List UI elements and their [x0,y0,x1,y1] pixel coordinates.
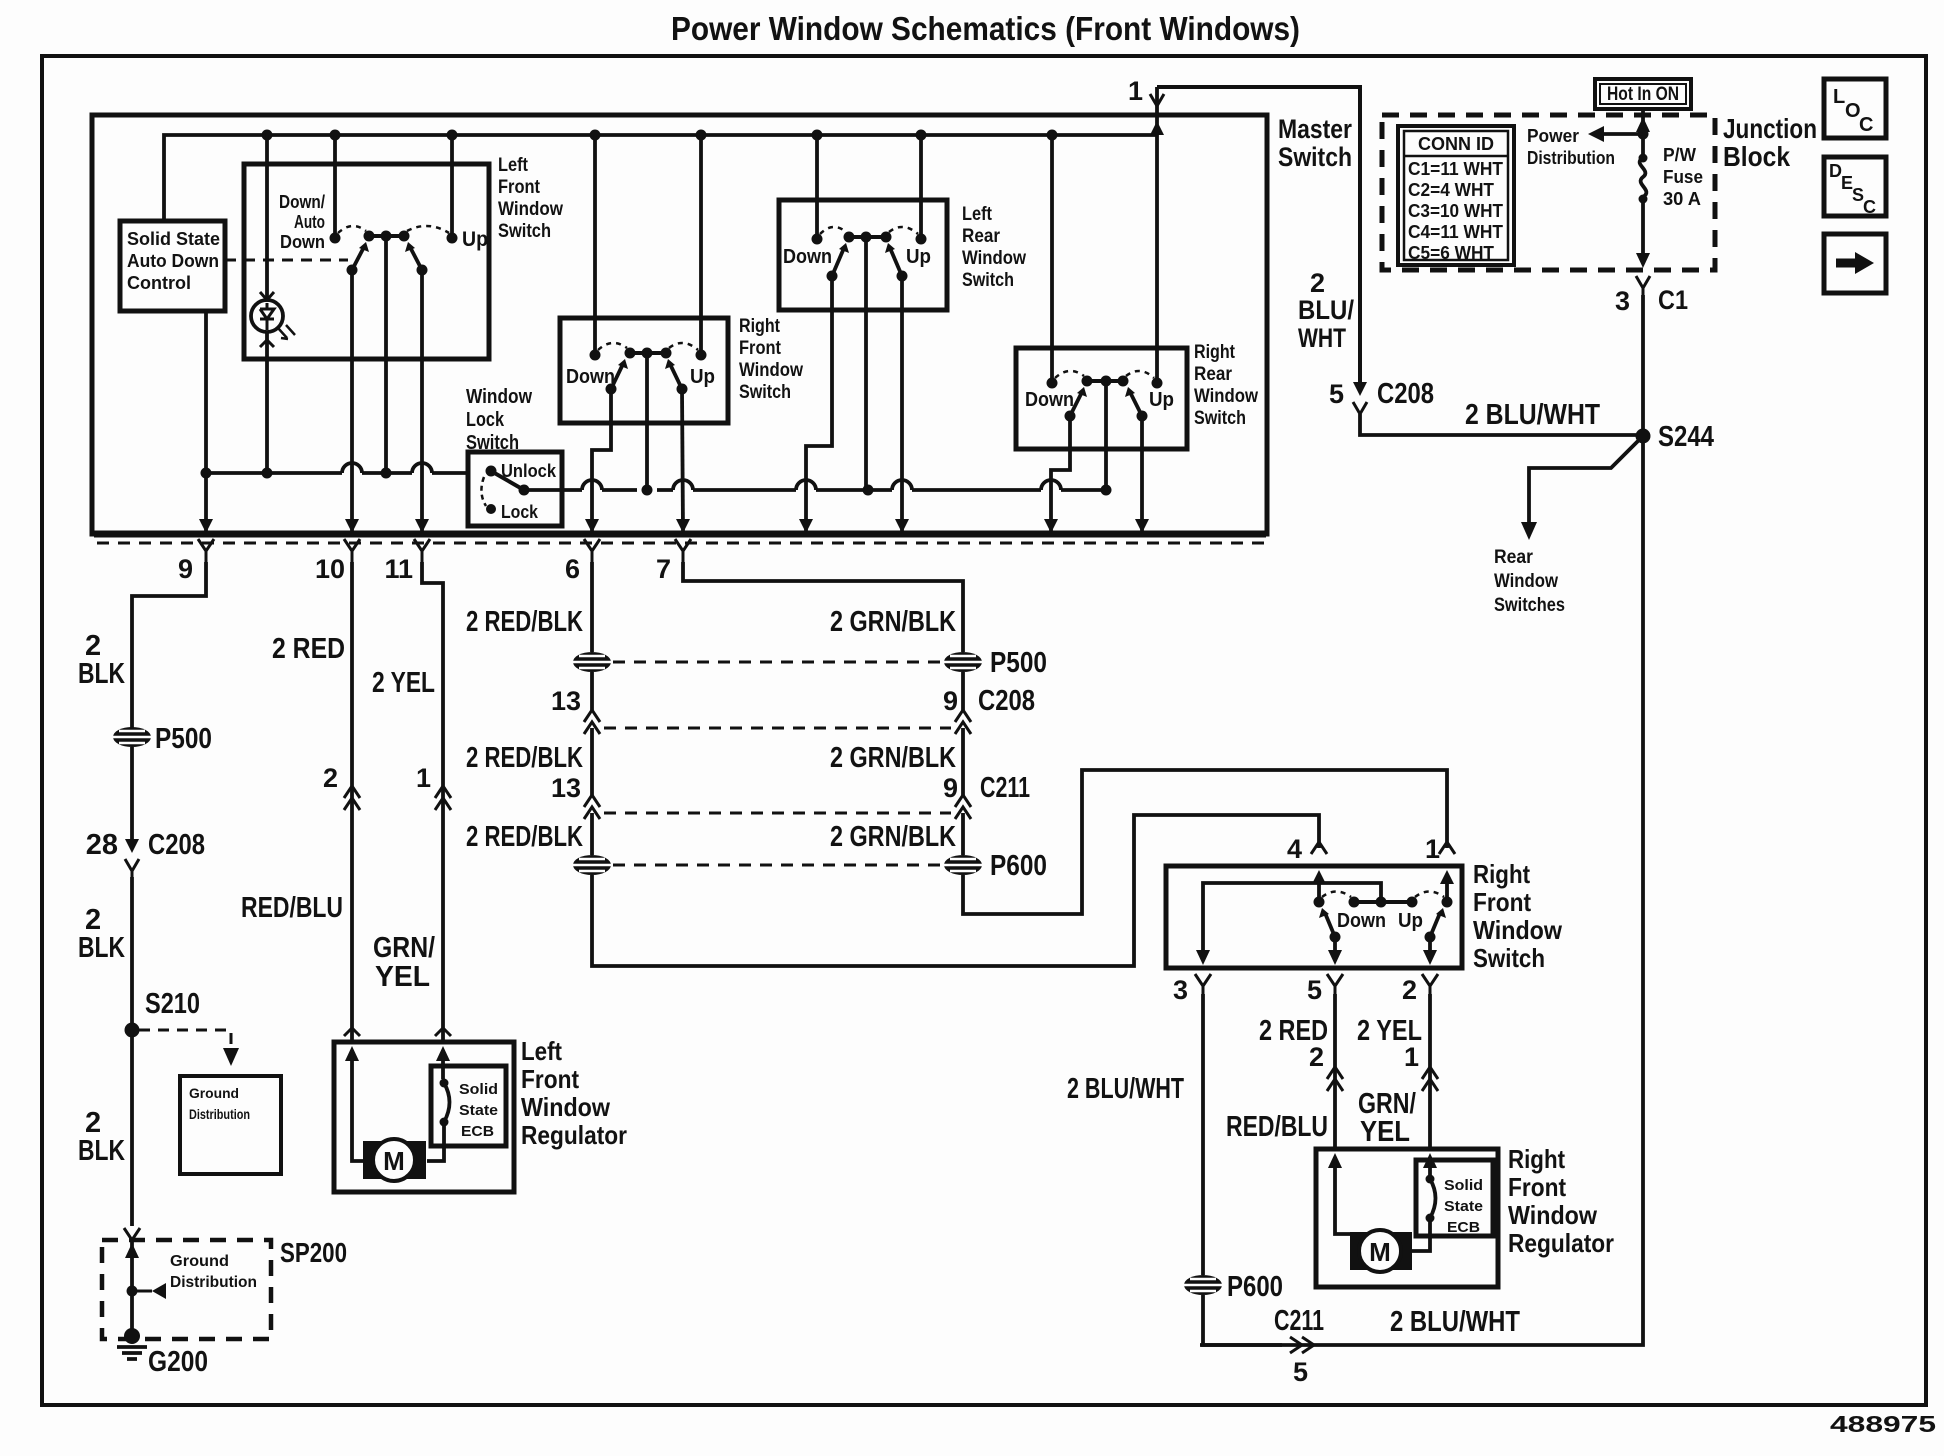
svg-text:C2=4 WHT: C2=4 WHT [1408,180,1494,200]
svg-text:C208: C208 [148,829,205,861]
svg-text:P600: P600 [1227,1271,1283,1303]
wire lock switch output bus [524,488,1106,492]
right front window regulator box [1316,1149,1498,1287]
wire SP200 internal [130,1240,134,1336]
svg-text:S210: S210 [145,988,200,1020]
connector P500 pair right [944,652,982,672]
svg-text:Switch: Switch [1473,943,1545,973]
connector pin 1 chevrons right regulator [1422,1067,1438,1091]
svg-text:Front: Front [1508,1172,1566,1202]
svg-text:2 BLU/WHT: 2 BLU/WHT [1465,399,1600,431]
wire feeds RR switch [1052,135,1157,383]
svg-text:Up: Up [1398,910,1423,932]
switch contacts RR window switch [1047,376,1163,422]
svg-text:Solid: Solid [459,1081,498,1098]
wire pin 7 chain [683,562,963,652]
connector RFWS pin 5 bottom [1327,974,1343,994]
svg-text:Front: Front [1473,887,1531,917]
switch contacts LR window switch [812,232,927,282]
master switch connector dashed line [97,542,1266,545]
wire P500 to C208 [130,747,134,839]
wire internal supply bus [164,135,1157,221]
svg-text:11: 11 [384,554,413,584]
right front window switch box [1166,866,1462,968]
connector RFWS pin 3 bottom [1195,974,1211,994]
svg-text:Master: Master [1278,114,1352,144]
svg-text:State: State [459,1102,498,1119]
svg-text:P500: P500 [155,723,212,755]
svg-text:3: 3 [1615,286,1630,316]
svg-text:Down: Down [566,366,615,388]
svg-text:BLU/: BLU/ [1298,295,1354,325]
dashed link C208 [604,727,951,730]
svg-text:C208: C208 [978,685,1035,717]
svg-text:Front: Front [498,177,541,198]
svg-text:Distribution: Distribution [1527,148,1615,168]
svg-text:L: L [1833,86,1845,108]
junction block dashed box [1382,115,1715,270]
svg-text:Rear: Rear [962,226,1001,247]
svg-text:488975: 488975 [1830,1411,1936,1437]
svg-text:Fuse: Fuse [1663,167,1703,187]
svg-text:2 RED/BLK: 2 RED/BLK [466,821,583,853]
connector C1 pin 3 [1636,276,1650,295]
svg-text:Right: Right [1473,859,1530,889]
svg-text:G200: G200 [148,1346,208,1378]
svg-text:2 RED: 2 RED [272,633,345,665]
CONN ID table [1398,126,1514,265]
svg-text:Solid: Solid [1444,1177,1483,1194]
svg-text:Up: Up [690,366,715,388]
wire ECB to motor right regulator [1412,1157,1430,1251]
fuse PW 30A [1639,154,1648,163]
svg-text:Down: Down [1337,910,1386,932]
svg-text:C: C [1859,114,1873,136]
svg-text:1: 1 [1128,76,1143,106]
wire pin 9 to P500 [132,562,206,728]
connector C208 pin 28 [125,839,139,853]
connector C211 pin 13 [584,795,600,819]
wire feed LF down contact [333,135,337,238]
wire RF center output [645,353,649,490]
svg-text:Up: Up [1149,389,1174,411]
svg-text:Right: Right [739,316,781,337]
svg-text:YEL: YEL [1360,1116,1410,1148]
wire pin 9 drop [204,473,208,531]
LOC legend box [1824,79,1886,138]
wire pin 5 down [1333,994,1337,1151]
ground distribution box [180,1076,281,1174]
LED indicator lamp [251,300,283,332]
svg-text:State: State [1444,1198,1483,1215]
solid state auto down control [120,221,225,311]
connector P500 grommet [113,727,151,747]
svg-text:2: 2 [1310,268,1325,298]
right front window switch box master [560,318,728,423]
pin 11 connector [414,539,430,562]
svg-text:SP200: SP200 [280,1237,347,1268]
svg-text:Left: Left [498,155,529,176]
connector C211 pin 9 [955,795,971,819]
svg-text:Block: Block [1723,141,1790,172]
svg-text:M: M [1369,1237,1391,1267]
svg-text:ECB: ECB [461,1123,494,1140]
connector C211 pin 5 bottom [1290,1337,1314,1353]
wire pin 3 to P600 [1201,994,1205,1275]
wire P500 to C208 left [590,672,594,795]
svg-text:Window: Window [498,199,563,220]
wire pin 11 to regulator [422,562,443,1042]
solid state ECB right [1416,1160,1493,1236]
wire LR center output [864,237,868,490]
svg-text:2: 2 [323,763,338,793]
connector pin 2 chevrons right regulator [1327,1067,1343,1091]
svg-text:Front: Front [739,338,782,359]
bus junction dots [262,130,1058,141]
svg-text:CONN ID: CONN ID [1418,134,1494,154]
wire S244 branch to rear window switches [1529,441,1638,522]
svg-text:Switches: Switches [1494,595,1565,616]
svg-text:P/W: P/W [1663,145,1696,165]
wire RFWS pin feeds [1319,884,1447,902]
wire left lead to RFWS pin 4 [592,815,1319,966]
svg-text:Distribution: Distribution [189,1106,250,1122]
regulator pin arrows right [1328,1153,1342,1168]
wire pin 10 to regulator [350,562,354,1042]
svg-text:S244: S244 [1658,421,1714,453]
svg-text:C4=11 WHT: C4=11 WHT [1408,222,1503,242]
window lock switch [468,452,562,526]
svg-text:Window: Window [1494,571,1558,592]
connector P600 pair left [573,855,611,875]
svg-text:2 BLU/WHT: 2 BLU/WHT [1067,1073,1184,1105]
wire C208 to S244 [1360,414,1636,435]
arrow legend box [1824,234,1886,293]
wire motor left lead [352,1050,364,1161]
svg-text:Left: Left [962,204,993,225]
svg-text:Ground: Ground [189,1085,239,1101]
svg-text:Switch: Switch [1194,408,1246,429]
connector pin 1 chevrons [435,786,451,810]
dashed link P600 [613,864,942,867]
svg-text:1: 1 [1404,1042,1419,1072]
svg-text:C5=6 WHT: C5=6 WHT [1408,243,1494,263]
svg-text:Rear: Rear [1494,547,1534,568]
dashed link C211 [604,812,951,815]
wire RFWS down output pin 5 [1333,937,1337,950]
wire RR down output [1051,416,1070,531]
svg-text:13: 13 [551,686,581,716]
switch contacts LF window switch [330,231,458,276]
wire S210 dashed branch [139,1030,231,1048]
svg-text:3: 3 [1173,975,1188,1005]
wire LED to lower bus [265,332,269,473]
wire C208 to S210 [130,877,134,1030]
svg-text:5: 5 [1329,379,1344,409]
connector C208 pin 13 [584,710,600,734]
svg-text:P600: P600 [990,850,1047,882]
svg-text:Auto Down: Auto Down [127,251,219,271]
svg-text:Power: Power [1527,126,1579,146]
svg-text:Right: Right [1508,1144,1565,1174]
connector C208 pin 9 [955,710,971,734]
svg-text:Window: Window [1508,1200,1598,1230]
pin 10 connector [344,539,360,562]
svg-text:Junction: Junction [1723,113,1817,144]
wire ECB to motor [427,1050,444,1161]
ground G200 [124,1328,140,1344]
svg-text:Hot In ON: Hot In ON [1607,84,1679,105]
svg-text:Auto: Auto [294,212,325,232]
switch contacts RFWS [1314,897,1453,943]
wire pin 6 chain [590,562,594,652]
wire right lead to RFWS pin 1 [963,770,1447,914]
svg-text:Regulator: Regulator [521,1120,627,1150]
connector P600 lower [1184,1275,1222,1295]
svg-text:6: 6 [565,554,580,584]
svg-text:30 A: 30 A [1663,189,1701,209]
svg-text:2 BLU/WHT: 2 BLU/WHT [1390,1306,1520,1338]
svg-text:Down: Down [280,232,325,252]
svg-text:Ground: Ground [170,1253,229,1270]
svg-text:2 GRN/BLK: 2 GRN/BLK [830,606,956,638]
svg-text:Up: Up [906,246,931,268]
svg-text:Down/: Down/ [279,192,325,212]
svg-text:Control: Control [127,273,191,293]
wire RFWS up output pin 2 [1428,937,1432,950]
svg-text:13: 13 [551,773,581,803]
wire master lower bus left [206,471,468,475]
left rear window switch box [779,200,947,310]
svg-text:9: 9 [178,554,193,584]
wire P600 to C211 bottom [1203,1295,1282,1345]
motor M left regulator [363,1141,426,1179]
motor M right regulator [1350,1232,1412,1270]
wire LF center output [384,236,388,473]
wire C211 to P600 left [590,813,594,855]
splice SP200 dashed box [102,1240,271,1339]
svg-text:BLK: BLK [78,658,125,690]
svg-text:Front: Front [521,1064,579,1094]
pin 9 connector [198,539,214,562]
left front window regulator box [334,1042,514,1192]
wire S210 to SP200 [130,1030,134,1226]
wire LED branch [265,135,269,299]
svg-text:GRN/: GRN/ [373,932,435,964]
svg-text:Right: Right [1194,342,1236,363]
svg-text:Down: Down [1025,389,1074,411]
svg-text:Window: Window [739,360,803,381]
wire feed LF up contact [450,135,454,238]
svg-text:5: 5 [1307,975,1322,1005]
left front window switch box [244,164,489,359]
pin 6 connector [584,539,600,562]
svg-text:10: 10 [315,554,345,584]
DESC legend box [1824,157,1886,216]
svg-text:BLK: BLK [78,932,125,964]
svg-text:1: 1 [416,763,431,793]
wire hot feed into junction block [1641,109,1645,156]
svg-text:M: M [383,1146,405,1176]
wire RR up output [1140,416,1144,531]
wire RF down output pin 6 [592,389,611,531]
svg-text:9: 9 [943,686,958,716]
connector C208 pin 5 [1353,382,1367,396]
wire LR up output [900,276,904,531]
solid state ECB left [431,1066,506,1146]
wire LR down output [806,276,832,531]
wire pin 2 down [1428,994,1432,1151]
svg-text:28: 28 [86,829,118,861]
svg-text:Window: Window [962,248,1026,269]
wire feeds LR switch [817,135,921,239]
svg-text:C211: C211 [980,772,1030,804]
node S210 [125,1023,140,1038]
svg-text:2: 2 [1309,1042,1324,1072]
svg-text:7: 7 [656,554,671,584]
node S244 [1636,429,1651,444]
svg-text:BLK: BLK [78,1135,125,1167]
svg-text:RED/BLU: RED/BLU [1226,1111,1328,1143]
svg-text:Unlock: Unlock [501,461,557,481]
svg-text:C211: C211 [1274,1305,1324,1337]
svg-text:Window: Window [1473,915,1563,945]
master switch box [92,115,1267,534]
svg-text:Solid State: Solid State [127,229,220,249]
dashed link P500 [613,661,942,664]
wire motor left lead right regulator [1335,1157,1350,1234]
svg-text:Switch: Switch [739,382,791,403]
svg-text:RED/BLU: RED/BLU [241,892,343,924]
svg-text:Up: Up [462,228,488,251]
svg-text:2: 2 [1402,975,1417,1005]
svg-text:Left: Left [521,1036,562,1066]
svg-text:Window: Window [521,1092,611,1122]
svg-text:ECB: ECB [1447,1219,1480,1236]
svg-text:C: C [1863,197,1876,217]
svg-text:Switch: Switch [498,221,551,242]
connector P500 pair left [573,652,611,672]
wire C1 to S244 and bottom [1200,295,1643,1345]
svg-text:1: 1 [1425,834,1440,864]
switch contacts RF window switch [590,348,707,395]
connector RFWS pin 2 bottom [1422,974,1438,994]
svg-text:2 RED/BLK: 2 RED/BLK [466,742,583,774]
wire RFWS center output pin 3 [1203,883,1381,950]
svg-text:4: 4 [1287,834,1302,864]
svg-text:2 GRN/BLK: 2 GRN/BLK [830,742,956,774]
svg-text:Down: Down [783,246,832,268]
dashed actuator line [225,259,348,262]
right rear window switch box [1016,348,1187,449]
svg-text:Power Window Schematics (Front: Power Window Schematics (Front Windows) [671,10,1300,47]
wire P500 to C208 right [961,672,965,795]
svg-text:Switch: Switch [962,270,1014,291]
wire fuse output to C1 [1641,199,1645,253]
svg-text:C1=11 WHT: C1=11 WHT [1408,159,1503,179]
connector pin 2 chevrons [344,786,360,810]
svg-text:YEL: YEL [375,961,430,993]
svg-text:9: 9 [943,773,958,803]
svg-text:Switch: Switch [1278,142,1352,172]
svg-text:WHT: WHT [1298,323,1346,353]
svg-text:2 GRN/BLK: 2 GRN/BLK [830,821,956,853]
wire auto down output [204,311,208,473]
wire power distribution branch [1602,132,1643,136]
connector P600 pair right [944,855,982,875]
regulator pin entries [344,1028,360,1036]
svg-text:C3=10 WHT: C3=10 WHT [1408,201,1503,221]
svg-text:Lock: Lock [501,502,539,522]
wire master feed from junction block [1157,87,1360,382]
svg-text:C1: C1 [1658,285,1688,315]
wire RR center output [1104,381,1108,490]
svg-text:2 YEL: 2 YEL [372,667,435,699]
svg-text:Window: Window [466,386,532,408]
Hot In ON tag [1595,79,1691,109]
pin 7 connector [675,539,691,562]
svg-text:Window: Window [1194,386,1258,407]
svg-text:Regulator: Regulator [1508,1228,1614,1258]
wire C211 to P600 right [961,813,965,855]
wire LF up output pin 11 [420,270,424,531]
svg-text:5: 5 [1293,1357,1308,1387]
svg-text:Distribution: Distribution [170,1274,257,1291]
wire RF up output pin 7 [682,389,683,531]
svg-text:2 RED/BLK: 2 RED/BLK [466,606,583,638]
svg-text:C208: C208 [1377,378,1434,410]
svg-text:Rear: Rear [1194,364,1233,385]
svg-text:P500: P500 [990,647,1047,679]
wire feeds RF switch [595,135,701,355]
svg-text:Lock: Lock [466,409,505,431]
wire LF down output pin 10 [350,270,354,531]
